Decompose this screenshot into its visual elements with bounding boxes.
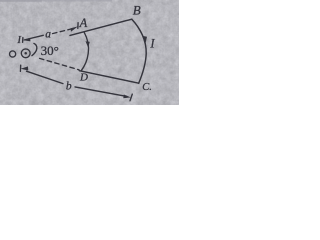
dimension b: right arrowhead <box>123 95 130 99</box>
dimension b: left tick <box>19 65 21 71</box>
line A to B <box>70 19 132 35</box>
dimension b: left solid segment <box>27 71 64 83</box>
svg-text:b: b <box>66 80 72 92</box>
svg-text:a: a <box>45 29 51 41</box>
svg-text:A: A <box>79 16 88 30</box>
arrowhead on inner arc <box>86 41 90 47</box>
outer arc B to C <box>132 19 146 83</box>
dimension a: left tick <box>22 38 24 43</box>
dashed ray to D <box>40 58 79 69</box>
inner arc A to D <box>81 32 89 71</box>
svg-text:D: D <box>79 71 88 83</box>
dimension a: dashed segment <box>53 29 72 34</box>
dimension a: left solid segment <box>25 35 44 40</box>
dimension b: left arrowhead <box>21 66 29 70</box>
dimension a: right arrowhead <box>71 26 78 31</box>
arrowhead on outer arc <box>143 36 148 43</box>
svg-text:30°: 30° <box>41 43 59 58</box>
label O (letter drawn as small circle) <box>10 51 16 57</box>
paper background <box>0 0 179 105</box>
svg-text:B: B <box>133 3 141 18</box>
angle arc (30 degrees) <box>32 43 37 55</box>
dimension b: right tick <box>130 94 132 101</box>
dimension a: right tick <box>77 23 79 29</box>
dimension a: left arrowhead <box>23 38 31 42</box>
top edge smudge <box>0 0 112 2</box>
dimension b: right segment <box>75 87 127 97</box>
svg-text:I: I <box>149 36 155 50</box>
source point symbol (circle with center dot) <box>21 49 30 58</box>
line D to C <box>79 71 138 84</box>
svg-text:C.: C. <box>142 82 152 93</box>
